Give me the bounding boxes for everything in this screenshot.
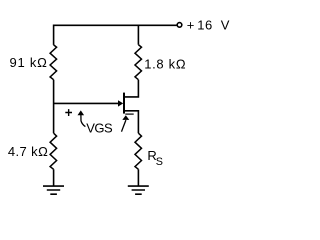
wire left rail bottom [53,169,55,186]
minus sign VGS polarity [125,113,133,115]
svg-text:4.7 kΩ: 4.7 kΩ [8,144,48,159]
svg-text:+ 16 V: + 16 V [187,17,230,32]
resistor R3 1.8k [135,45,142,80]
svg-text:91 kΩ: 91 kΩ [10,55,48,70]
plus sign VGS polarity [65,109,72,116]
wire left rail top [53,25,55,45]
wire gate lead [54,102,119,104]
label VGS [86,120,113,135]
transistor Q1 JFET channel bar [123,93,125,114]
label RS [147,148,163,168]
wire left rail middle [53,80,55,134]
VGS arrow left [78,110,86,126]
VGS arrow right [122,115,130,131]
ground right [128,186,149,194]
wire top rail [54,24,177,26]
ground left [43,186,64,194]
label 91 kOhm [10,55,48,70]
wire source lead [124,111,138,133]
svg-text:1.8 kΩ: 1.8 kΩ [144,57,186,72]
wire right rail top [137,25,139,45]
resistor R2 4.7k [50,133,57,169]
svg-text:S: S [156,156,163,168]
label 4.7 kOhm [8,144,48,159]
node VDD terminal circle [177,23,182,28]
label +16V supply [187,17,230,32]
svg-text:VGS: VGS [86,120,113,135]
resistor RS [135,133,142,169]
wire source rail bottom [137,169,139,186]
wire drain lead [124,80,138,97]
resistor R1 91k [50,45,57,80]
label 1.8 kOhm [144,57,186,72]
transistor Q1 gate arrowhead [118,100,123,106]
